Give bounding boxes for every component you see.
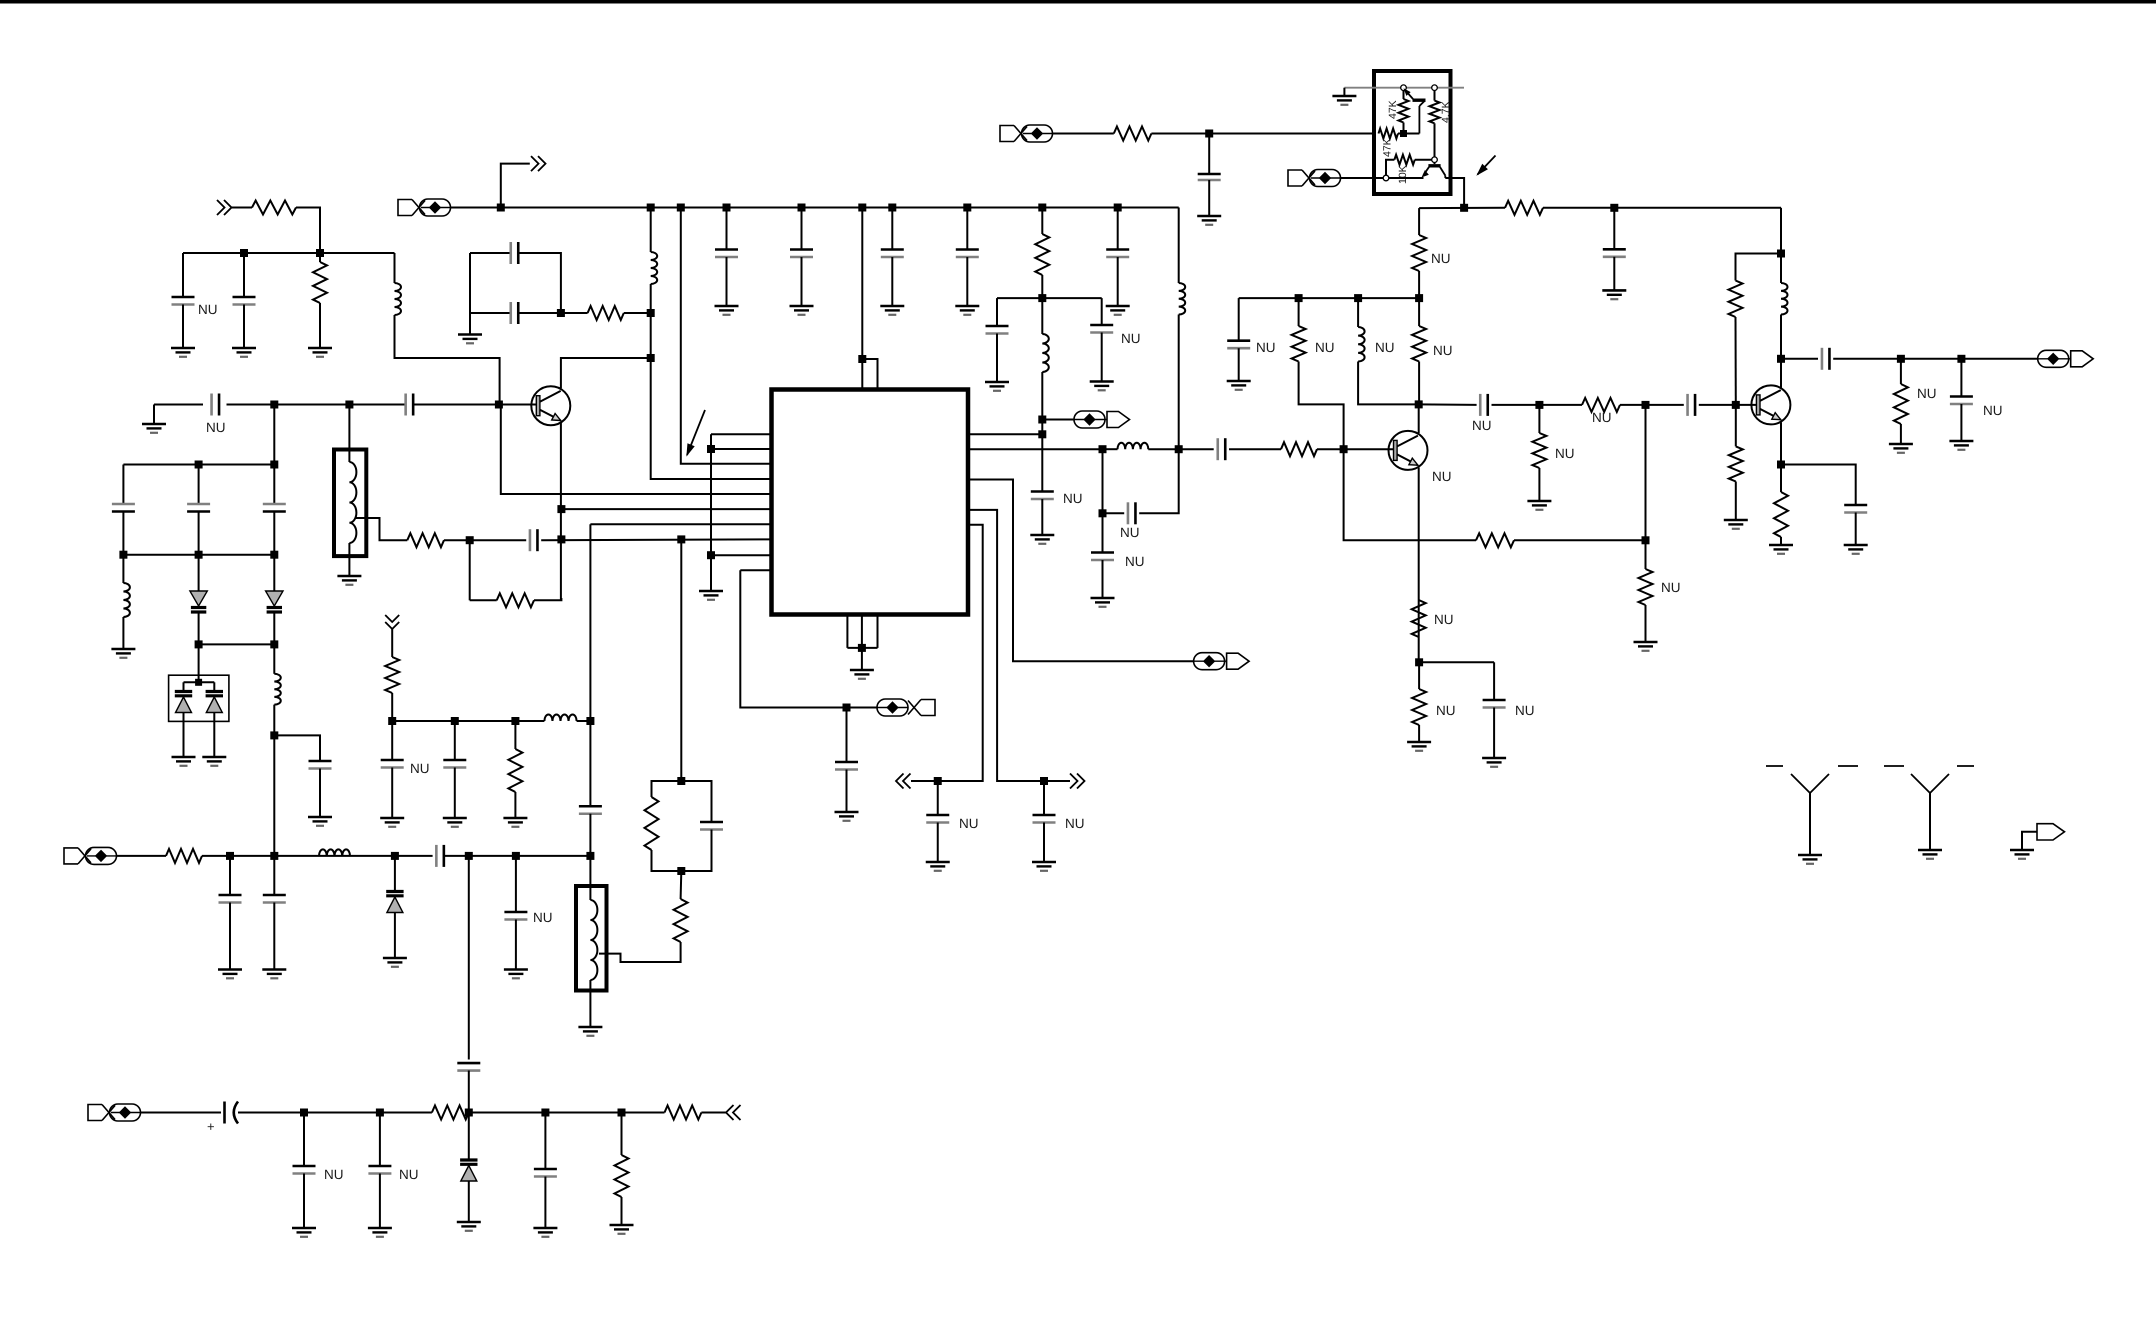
wire	[469, 1112, 665, 1114]
ground	[533, 1228, 557, 1237]
pin	[1432, 157, 1438, 163]
label NU	[1431, 251, 1451, 266]
pointer arrow 1	[687, 410, 705, 455]
wire	[681, 830, 711, 872]
resistor 10K	[1394, 155, 1414, 165]
junction node	[388, 717, 396, 725]
wire	[1178, 315, 1180, 450]
capacitor C33	[1844, 505, 1867, 513]
svg-text:NU: NU	[1120, 525, 1140, 540]
connector J10	[1000, 125, 1053, 142]
wire	[650, 208, 652, 253]
wire	[394, 913, 396, 959]
wire feedback	[1344, 449, 1476, 540]
connector J4	[1074, 411, 1130, 428]
capacitor C19 NU	[926, 815, 949, 823]
svg-text:NU: NU	[1472, 418, 1492, 433]
resistor R29	[615, 1155, 629, 1197]
capacitor C14	[263, 504, 286, 512]
label NU	[324, 1167, 344, 1182]
wire	[1736, 254, 1782, 281]
wire	[1043, 781, 1045, 815]
wire	[122, 617, 124, 649]
wire U1 pin	[938, 525, 983, 781]
svg-text:NU: NU	[1917, 386, 1937, 401]
wire	[468, 1181, 470, 1222]
wire emitter rail	[1389, 177, 1424, 179]
wire U1 pin	[711, 433, 772, 435]
wire to U1 pin	[651, 358, 772, 479]
junction node	[1295, 294, 1303, 302]
zener diode D4	[460, 1160, 477, 1181]
wire	[470, 252, 511, 254]
capacitor C39	[219, 895, 242, 903]
resistor R3	[1035, 234, 1049, 275]
resistor R9 NU	[1292, 326, 1306, 362]
wire	[1780, 208, 1782, 283]
svg-text:NU: NU	[1983, 403, 2003, 418]
connector J8	[2037, 824, 2065, 840]
ground	[1197, 216, 1221, 225]
wire	[319, 769, 321, 818]
wire	[589, 524, 591, 721]
wire	[213, 682, 215, 691]
wire	[1209, 133, 1374, 135]
junction node	[1038, 204, 1046, 212]
svg-text:NU: NU	[1661, 580, 1681, 595]
wire	[589, 814, 591, 900]
wire coupling	[1419, 403, 1477, 406]
wire	[801, 208, 803, 250]
wire	[937, 781, 939, 815]
connector J9	[1288, 170, 1341, 187]
capacitor C36 NU	[381, 760, 404, 768]
ground	[383, 958, 407, 967]
junction node	[1099, 445, 1107, 453]
ground	[111, 649, 135, 658]
label 47K	[1382, 138, 1394, 157]
junction node	[843, 704, 851, 712]
junction node	[1732, 401, 1740, 409]
polarized capacitor C43	[225, 1102, 239, 1124]
wire to U1 VCC pin	[861, 208, 863, 391]
label NU	[1375, 340, 1395, 355]
connector J3	[1194, 653, 1250, 670]
wire	[561, 312, 588, 314]
inductor T2 coil	[590, 900, 597, 980]
wire	[273, 512, 275, 555]
wire	[1780, 537, 1782, 545]
wire	[1208, 180, 1210, 216]
label NU	[1315, 340, 1335, 355]
wire	[1415, 159, 1432, 161]
inductor L4	[123, 583, 130, 617]
wire	[1102, 449, 1104, 552]
svg-text:NU: NU	[410, 761, 430, 776]
junction node	[647, 309, 655, 317]
wire	[621, 1197, 623, 1225]
wire	[514, 721, 516, 749]
wire osc row 2	[123, 554, 274, 556]
transistor Q2	[0, 0, 1, 1]
capacitor C32 NU	[1950, 397, 1973, 405]
off-page arrow AGC in	[217, 200, 232, 215]
label NU	[1121, 331, 1141, 346]
wire	[518, 312, 561, 314]
resistor R18	[1729, 281, 1743, 318]
wire	[846, 770, 848, 813]
ground	[504, 970, 528, 979]
wire	[1041, 372, 1043, 420]
junction node	[647, 354, 655, 362]
ground	[232, 348, 256, 357]
wire	[413, 404, 536, 406]
wire	[589, 721, 591, 806]
wire	[1238, 348, 1240, 381]
svg-text:NU: NU	[1434, 612, 1454, 627]
crystal X1 box	[169, 675, 229, 721]
wire	[1139, 449, 1179, 513]
junction node	[1038, 430, 1046, 438]
wire U1 pin	[711, 554, 772, 556]
ground	[835, 812, 859, 821]
svg-text:NU: NU	[1431, 251, 1451, 266]
wire bias line	[1419, 207, 1505, 209]
junction node	[1897, 355, 1905, 363]
label +	[207, 1119, 215, 1134]
wire	[444, 539, 526, 541]
ground	[1032, 862, 1056, 871]
capacitor C15	[309, 761, 332, 769]
wire	[1102, 560, 1104, 598]
resistor R10 NU	[1412, 326, 1426, 362]
svg-text:NU: NU	[1555, 446, 1575, 461]
capacitor C46	[534, 1169, 557, 1177]
inductor L10	[319, 849, 350, 856]
resistor 4.7K	[1430, 101, 1440, 124]
ground	[1090, 382, 1114, 391]
ground	[1949, 441, 1973, 450]
capacitor C9	[406, 394, 414, 416]
wire	[891, 208, 893, 250]
wire	[273, 555, 275, 591]
wire	[726, 208, 728, 250]
inductor L8	[1781, 283, 1788, 315]
junction node	[226, 852, 234, 860]
junction node	[557, 309, 565, 317]
wire	[394, 253, 396, 283]
wire	[469, 540, 471, 600]
wire	[273, 465, 275, 505]
svg-text:NU: NU	[399, 1167, 419, 1182]
wire	[515, 920, 517, 970]
wire Q3 base	[1735, 405, 1737, 447]
resistor R1	[252, 201, 296, 215]
junction node	[858, 355, 866, 363]
wire osc row	[123, 464, 274, 466]
junction node	[1610, 204, 1618, 212]
svg-text:NU: NU	[959, 816, 979, 831]
transistor Q2	[1389, 431, 1428, 470]
wire	[801, 257, 803, 306]
junction node	[466, 536, 474, 544]
wire	[122, 512, 124, 555]
wire	[238, 1112, 432, 1114]
resistor R16 NU	[1582, 398, 1620, 412]
resistor R19	[1505, 201, 1543, 215]
wire	[243, 305, 245, 349]
crystal element	[206, 692, 223, 713]
ground	[1332, 96, 1356, 105]
junction node	[1777, 461, 1785, 469]
wire	[1299, 362, 1344, 450]
wire	[1613, 208, 1615, 250]
wire	[701, 1112, 726, 1114]
wire bias row	[1239, 297, 1419, 299]
ground	[202, 757, 226, 766]
wire	[1043, 823, 1045, 863]
wire	[1514, 539, 1646, 541]
wire	[680, 871, 683, 899]
resistor R6	[497, 593, 534, 607]
wire	[1645, 605, 1647, 642]
capacitor C47	[1198, 174, 1221, 180]
capacitor C8 NU	[212, 394, 220, 416]
junction node	[1642, 536, 1650, 544]
junction node	[240, 249, 248, 257]
ground	[1091, 598, 1115, 607]
capacitor C18 NU	[1033, 815, 1056, 823]
junction node	[1415, 658, 1423, 666]
junction node	[195, 551, 203, 559]
junction node	[1038, 416, 1046, 424]
wire	[348, 543, 350, 576]
junction node	[963, 204, 971, 212]
wire	[296, 208, 320, 254]
ground	[262, 970, 286, 979]
svg-text:NU: NU	[1256, 340, 1276, 355]
ground	[790, 306, 814, 315]
wire	[394, 856, 396, 892]
junction node	[858, 644, 866, 652]
label NU	[1515, 703, 1535, 718]
svg-text:+: +	[207, 1119, 215, 1134]
wire	[544, 1113, 546, 1170]
label NU	[1065, 816, 1085, 831]
junction node	[647, 204, 655, 212]
wire	[861, 648, 863, 670]
wire	[273, 903, 275, 970]
wire	[624, 312, 651, 314]
wire	[198, 512, 200, 555]
wire	[1298, 298, 1300, 326]
label 10K	[1397, 165, 1409, 184]
wire	[1208, 134, 1210, 175]
shielded inductor T2 box	[576, 886, 607, 991]
resistor R5	[407, 533, 444, 547]
wire	[650, 284, 652, 358]
wire	[1341, 177, 1384, 179]
ground	[1030, 535, 1054, 544]
svg-text:NU: NU	[1433, 343, 1453, 358]
wire U1 pin	[711, 448, 772, 450]
wire	[227, 404, 406, 406]
junction node	[1415, 294, 1423, 302]
junction node	[497, 204, 505, 212]
svg-text:NU: NU	[1063, 491, 1083, 506]
wire	[213, 713, 215, 758]
wire	[1317, 448, 1394, 450]
sub-circuit U2 box	[1374, 71, 1451, 194]
wire	[122, 465, 124, 505]
wire Q2 emitter	[1418, 468, 1420, 663]
resistor R27	[432, 1106, 469, 1120]
pin	[1432, 85, 1438, 91]
wire	[468, 1113, 470, 1161]
wire	[1418, 725, 1420, 742]
capacitor C34	[700, 822, 723, 830]
label NU	[1120, 525, 1140, 540]
resistor R12 NU	[1412, 689, 1426, 725]
junction node	[858, 204, 866, 212]
wire	[681, 781, 711, 822]
wire	[1403, 123, 1405, 134]
wire	[391, 768, 393, 819]
junction node	[376, 1109, 384, 1117]
wire	[273, 705, 275, 856]
ground	[850, 670, 874, 679]
ground	[1769, 545, 1793, 554]
wire	[1053, 133, 1114, 135]
wire	[1041, 275, 1043, 298]
pin	[1383, 175, 1389, 181]
wire	[391, 693, 393, 760]
wire	[273, 612, 275, 644]
ground	[985, 382, 1009, 391]
capacitor C37	[443, 760, 466, 768]
wire gray rail	[1344, 87, 1464, 89]
wire	[198, 644, 200, 682]
wire	[153, 405, 155, 425]
svg-text:NU: NU	[198, 302, 218, 317]
wire Q1 emitter	[560, 423, 562, 600]
junction node	[270, 640, 278, 648]
wire	[1493, 662, 1495, 700]
junction node	[465, 1109, 473, 1117]
wire T1 tap	[356, 518, 407, 540]
wire	[273, 405, 275, 465]
wire	[1613, 257, 1615, 291]
ground	[1889, 444, 1913, 453]
svg-text:NU: NU	[1432, 469, 1452, 484]
wire	[184, 681, 215, 683]
varactor diode D1	[190, 591, 207, 612]
inductor L2	[651, 252, 658, 284]
wire	[544, 1177, 546, 1229]
capacitor C3	[715, 250, 738, 258]
wire	[1735, 482, 1737, 521]
wire	[444, 855, 591, 857]
capacitor C42	[457, 1063, 480, 1071]
off-page arrow right	[1070, 774, 1085, 789]
wire	[726, 257, 728, 306]
ground	[172, 757, 196, 766]
wire emitter net	[680, 539, 682, 781]
junction node	[119, 551, 127, 559]
junction node	[1175, 445, 1183, 453]
junction node	[270, 401, 278, 409]
pointer arrow 2	[1478, 156, 1496, 175]
wire	[391, 629, 393, 657]
wire base line	[154, 404, 203, 406]
capacitor C45 NU	[368, 1166, 391, 1174]
wire	[1103, 512, 1125, 514]
ground	[880, 306, 904, 315]
label 4.7K	[1440, 101, 1452, 123]
junction node	[1400, 130, 1407, 137]
wire	[1543, 207, 1781, 209]
wire	[468, 856, 470, 1060]
ground	[1106, 306, 1130, 315]
junction node	[798, 204, 806, 212]
label NU	[1433, 343, 1453, 358]
capacitor C40	[263, 895, 286, 903]
junction node	[270, 852, 278, 860]
wire VCC rail	[451, 207, 1179, 209]
wire	[117, 855, 167, 857]
wire Q1 collector	[561, 358, 651, 388]
capacitor C30	[1603, 249, 1626, 256]
wire	[1117, 257, 1119, 306]
svg-text:NU: NU	[1515, 703, 1535, 718]
wire	[274, 735, 320, 761]
wire	[379, 1174, 381, 1229]
wire	[621, 1113, 623, 1156]
wire to U1 pin	[541, 538, 771, 541]
resistor R14 NU	[1639, 569, 1653, 605]
junction node	[934, 777, 942, 785]
ground	[926, 862, 950, 871]
capacitor C10	[511, 242, 519, 264]
wire	[1229, 448, 1281, 450]
label NU	[1555, 446, 1575, 461]
junction node	[195, 461, 203, 469]
wire	[996, 334, 998, 383]
wire	[1358, 362, 1419, 405]
inductor L7 NU	[1358, 327, 1365, 362]
resistor R26	[166, 849, 202, 863]
wire	[1343, 88, 1345, 96]
ground	[308, 817, 332, 826]
inductor L6	[1118, 443, 1149, 450]
label NU	[533, 910, 553, 925]
capacitor C1 NU	[172, 297, 195, 305]
wire	[589, 980, 591, 1027]
capacitor C2	[233, 297, 256, 305]
wire	[847, 707, 878, 709]
capacitor C24 NU	[1128, 502, 1136, 524]
wire row 721	[392, 720, 544, 722]
label NU	[1432, 469, 1452, 484]
wire	[577, 720, 591, 722]
junction node	[270, 551, 278, 559]
wire to shield coil	[348, 405, 350, 463]
transistor Q1	[0, 0, 1, 1]
inductor L9	[544, 715, 576, 722]
label NU	[1917, 386, 1937, 401]
wire	[454, 721, 456, 760]
svg-text:NU: NU	[324, 1167, 344, 1182]
